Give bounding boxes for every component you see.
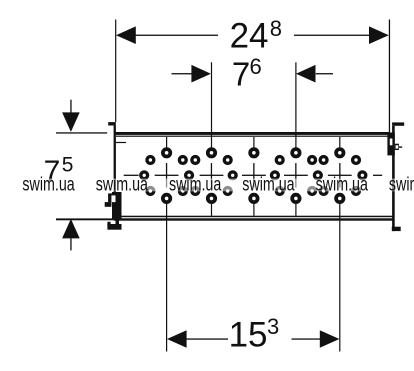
dimension 248: line right segment [294, 35, 370, 36]
right wall bracket clamp body [387, 133, 394, 156]
svg-text:7: 7 [232, 56, 250, 93]
left wall bracket hook [108, 193, 112, 202]
dimension 75: bottom leader line [56, 218, 114, 220]
dimension 76: extension line left (column C2) [211, 62, 212, 147]
centerline dash right [373, 175, 382, 176]
lower row ring L4 [224, 188, 231, 195]
lower row ring L5 [276, 188, 283, 195]
cross centerline mark column C4 [284, 163, 308, 187]
bottom hole C1 [163, 195, 170, 202]
dimension 75: top leader line [56, 132, 107, 133]
dimension 75: lower arrow stem [70, 238, 71, 250]
left wall bracket toe [107, 222, 110, 226]
dimension 153: line left segment [186, 338, 228, 339]
svg-text:swim.ua: swim.ua [169, 175, 222, 196]
right wall bracket clamp slot [390, 139, 393, 146]
middle row ring M3 [229, 172, 236, 179]
middle row ring M4 [272, 172, 279, 179]
bottom hole C3 [250, 195, 257, 202]
dimension 76: left arrowhead (points right) [191, 65, 211, 83]
upper row ring U5 [276, 157, 283, 164]
dimension 76: left tail line [172, 73, 192, 74]
left wall bracket clamp body [112, 192, 122, 219]
dimension 75: lower arrowhead (points up) [62, 219, 80, 239]
right wall bracket tab [392, 122, 404, 125]
bottom hole C4 [292, 195, 299, 202]
top hole C4 [292, 149, 299, 156]
plate top edge thin line [116, 136, 390, 137]
left wall bracket clamp slot [111, 195, 115, 202]
plate left edge bar [114, 126, 116, 219]
cross centerline mark column C2 [200, 163, 224, 187]
plate left end tab [108, 122, 116, 125]
centerline tick below bottom hole C2 [211, 204, 212, 216]
upper row ring U6 [309, 157, 316, 164]
plate right end foot [392, 227, 401, 231]
plate bottom edge thick line [114, 218, 394, 220]
lower row ring L1 [147, 188, 154, 195]
middle row ring M1 [141, 172, 148, 179]
centerline tick above top hole C5 [339, 137, 340, 147]
dimension 75: upper arrowhead (points down) [62, 112, 80, 131]
dimension 248: extension line right / plate right edge upper [389, 20, 390, 134]
bottom hole C5 [336, 195, 343, 202]
plate bottom edge thin line [116, 216, 393, 218]
plate left end step line [116, 142, 126, 143]
upper row ring U8 [353, 157, 360, 164]
dimension 76: right arrowhead (points left) [296, 65, 316, 83]
dimension 248: right arrowhead [369, 26, 389, 44]
svg-text:5: 5 [62, 153, 74, 176]
dimension 153: right arrowhead [320, 330, 340, 348]
dimension 76: extension line right (column C4) [295, 62, 296, 147]
centerline tick above top hole C1 [166, 137, 167, 147]
middle row ring M5 [314, 172, 321, 179]
upper row ring U3 [192, 157, 199, 164]
svg-text:swim.ua: swim.ua [22, 175, 75, 196]
left wall bracket foot [107, 224, 121, 230]
right wall bracket tick [399, 146, 402, 147]
upper row ring U1 [147, 157, 154, 164]
upper row ring U4 [224, 157, 231, 164]
top hole C1 [163, 149, 170, 156]
svg-text:6: 6 [250, 54, 262, 79]
lower row ring L6 [309, 188, 316, 195]
lower row ring L3 [192, 188, 199, 195]
dimension 248: extension line left [115, 20, 116, 123]
left wall bracket tab [105, 202, 112, 207]
cross centerline mark column C1 [155, 163, 179, 187]
centerline dash left [124, 175, 139, 176]
dimension 76: right tail line [316, 73, 333, 74]
centerline tick below bottom hole C3 [253, 204, 254, 216]
middle row ring M2 [186, 172, 193, 179]
top hole C3 [250, 149, 257, 156]
plate right edge bar [392, 126, 395, 231]
dimension 153: line right segment [292, 338, 321, 339]
lower row ring L8 [353, 188, 360, 195]
cross centerline mark column C5 [328, 163, 352, 187]
dimension 75: upper arrow stem [70, 100, 71, 113]
middle row ring M6 [359, 172, 366, 179]
svg-text:swim.ua: swim.ua [316, 175, 369, 196]
svg-text:3: 3 [267, 314, 279, 339]
svg-text:15: 15 [229, 316, 268, 355]
centerline tick above top hole C3 [253, 137, 254, 147]
left wall bracket foot connector [116, 219, 120, 225]
top hole C2 [208, 149, 215, 156]
cross centerline mark column C3 [242, 163, 266, 187]
dimension 153: extension line left (below hole C1) [166, 204, 167, 352]
svg-text:swim.ua: swim.ua [96, 175, 149, 196]
lower row ring L2 [179, 188, 186, 195]
lower row ring L7 [320, 188, 327, 195]
svg-text:8: 8 [270, 16, 282, 41]
upper row ring U2 [179, 157, 186, 164]
upper row ring U7 [320, 157, 327, 164]
centerline tick below bottom hole C4 [295, 204, 296, 216]
svg-text:24: 24 [230, 17, 269, 56]
top hole C5 [336, 149, 343, 156]
watermark band [0, 179, 414, 192]
plate top edge thick line [116, 132, 390, 135]
right wall bracket knob hole [396, 145, 399, 148]
dimension 153: left arrowhead [167, 330, 187, 348]
right wall bracket knob [395, 144, 399, 150]
dimension 153: extension line right (below hole C5) [339, 204, 340, 352]
svg-text:swim.ua: swim.ua [242, 175, 295, 196]
dimension 248: line left segment [136, 35, 219, 36]
bottom hole C2 [208, 195, 215, 202]
svg-text:swim.ua: swim.ua [389, 175, 414, 196]
dimension 248: left arrowhead [116, 26, 136, 44]
